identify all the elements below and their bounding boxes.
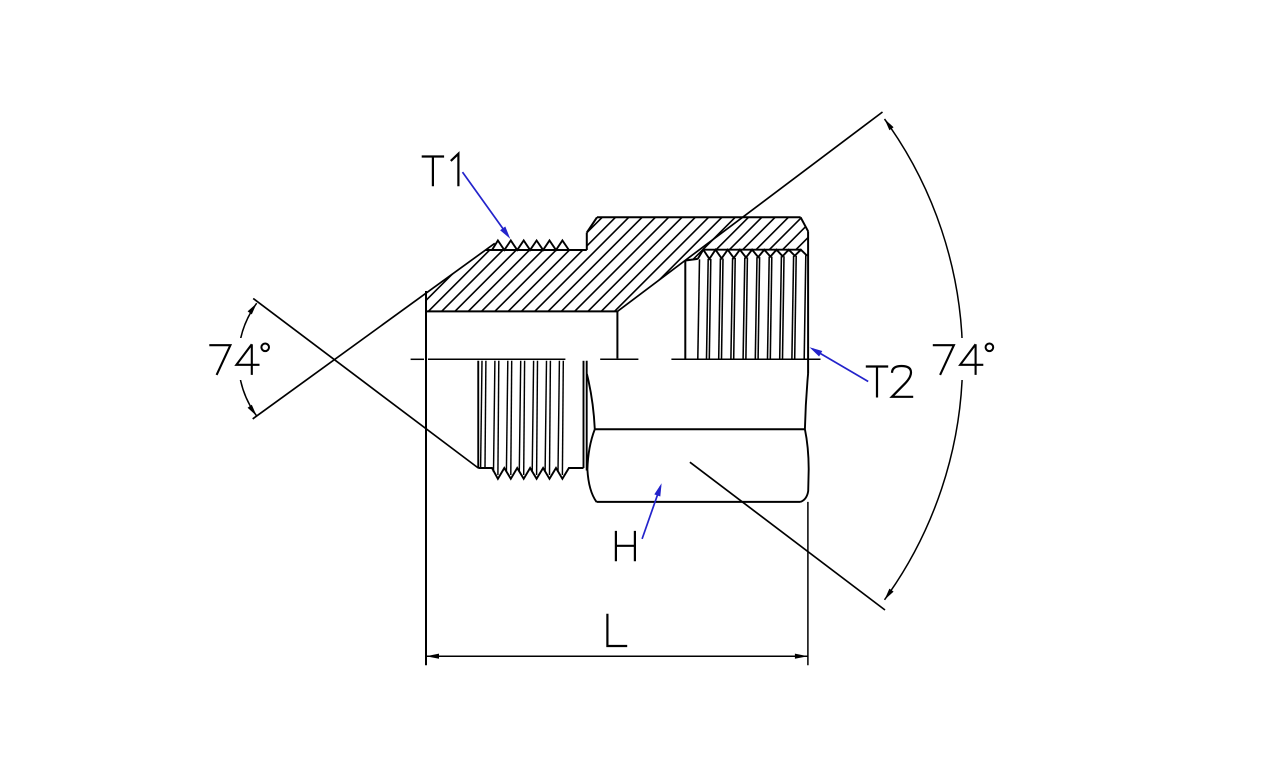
male thread face lines (bottom)	[481, 361, 482, 468]
male thread T1 crest profile (section, top)	[492, 241, 569, 251]
left arc arrowhead bottom	[248, 405, 257, 416]
L dim arrowhead left	[426, 654, 439, 659]
right 74-deg dimension arc	[885, 119, 963, 600]
label H	[616, 531, 635, 561]
label 74-deg left	[209, 345, 230, 375]
L dimension line	[426, 655, 808, 657]
female thread face lines	[698, 259, 700, 359]
flare cone construction line A (left lower)	[253, 299, 478, 469]
female port bottom face	[684, 261, 686, 359]
flare cone construction line B (left upper)	[253, 243, 495, 419]
leader arrow T1	[463, 172, 508, 235]
left arc arrowhead top	[248, 303, 257, 314]
bore step vertical	[616, 311, 618, 358]
left 74-deg dimension arc	[238, 303, 256, 416]
hex mid edge (bottom)	[595, 428, 805, 430]
L dim arrowhead right	[795, 654, 808, 659]
text mask left	[205, 338, 275, 380]
74-deg construction line (lower right)	[690, 462, 885, 610]
female thread T2 profile zigzag (section, top)	[698, 250, 808, 259]
centerline (dash-dot axis)	[411, 358, 424, 360]
right arc arrowhead bottom	[885, 589, 894, 600]
hex front chamfer curve (left)	[587, 374, 595, 429]
bore line (top section)	[426, 310, 617, 312]
internal 74-deg seat cone line (upper)	[617, 112, 882, 311]
hex bottom silhouette	[597, 501, 801, 503]
hex right end profile	[801, 374, 809, 502]
label 74-deg right	[933, 345, 954, 375]
thread runout verticals	[583, 361, 585, 468]
male end left face edge + L extension line	[425, 291, 427, 665]
right L extension line	[807, 502, 809, 665]
male thread silhouette zigzag (bottom)	[478, 468, 583, 479]
right arc arrowhead top	[885, 119, 894, 130]
hex top chamfer (left)	[587, 217, 597, 232]
male thread start vertical (bottom)	[477, 361, 479, 468]
male thread root line / shoulder (top)	[486, 249, 587, 251]
text mask right	[927, 338, 999, 380]
hex top outline (section)	[597, 216, 801, 218]
hex lower-left chamfer curve	[587, 429, 596, 502]
label T2	[866, 367, 888, 398]
leader arrow T2	[813, 349, 869, 382]
step to hex (top)	[586, 233, 588, 250]
fitting right edge (top half)	[807, 231, 809, 373]
female thread tip line (hatch boundary)	[703, 249, 801, 251]
hex top chamfer (right)	[801, 217, 809, 231]
leader arrow H	[642, 486, 660, 539]
label L	[607, 614, 627, 646]
label T1	[422, 157, 444, 187]
female port recess top edge	[685, 259, 698, 261]
